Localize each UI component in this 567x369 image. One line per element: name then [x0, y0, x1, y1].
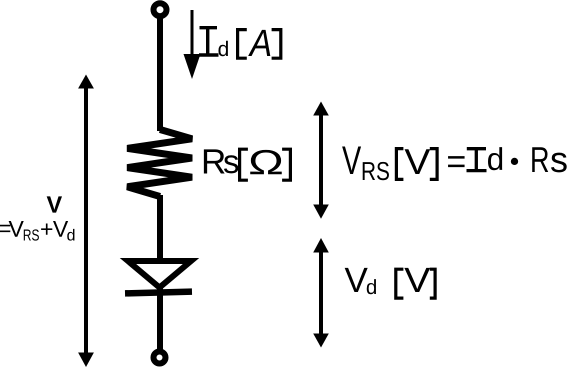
- label V = VRS + Vd: [0, 196, 74, 240]
- label Rs[Ω]: [204, 149, 291, 180]
- label Id [A]: [199, 28, 281, 59]
- label Vd [V]: [345, 268, 435, 298]
- diode D1: [125, 261, 192, 293]
- wire: top terminal to resistor: [157, 16, 163, 131]
- voltage arrow V (left): [78, 75, 94, 368]
- wire: resistor to diode: [157, 195, 163, 261]
- voltage arrow Vd: [313, 238, 329, 348]
- current arrow Id: [184, 10, 201, 79]
- terminal T2 (bottom): [154, 352, 166, 364]
- label VRS [V] = Id · Rs: [342, 146, 567, 180]
- wire: diode to bottom terminal: [157, 286, 163, 351]
- terminal T1 (top): [154, 3, 167, 16]
- resistor Rs: [127, 130, 192, 197]
- voltage arrow VRS: [313, 102, 329, 219]
